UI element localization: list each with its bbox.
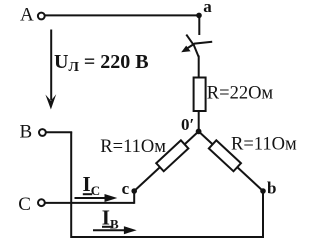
svg-text:R=11Ом: R=11Ом: [100, 137, 166, 157]
node a dot: [196, 13, 202, 19]
terminal A circle: [38, 13, 45, 20]
svg-text:A: A: [20, 5, 34, 26]
wire B right: [46, 131, 72, 133]
resistor R1 body: [194, 78, 206, 112]
wire a down to switch: [198, 15, 200, 35]
wire R1 to node 0': [198, 111, 200, 131]
svg-text:0′: 0′: [181, 115, 194, 134]
wire B down: [70, 132, 72, 238]
terminal B circle: [39, 129, 46, 136]
resistor R3 body (right diagonal): [209, 140, 241, 171]
switch motion arrow: [187, 42, 212, 49]
svg-text:R=11Ом: R=11Ом: [231, 135, 297, 155]
node c dot: [131, 188, 137, 194]
node 0' dot: [196, 129, 202, 135]
bottom wire to b: [71, 236, 265, 238]
switch blade: [186, 35, 198, 57]
svg-text:c: c: [122, 179, 130, 198]
svg-text:a: a: [203, 0, 212, 16]
voltage arrowhead: [45, 94, 56, 109]
wire 0' to node b diagonal: [199, 131, 263, 191]
underline of I_B: [102, 226, 112, 228]
svg-text:C: C: [18, 194, 31, 215]
svg-text:b: b: [267, 178, 276, 197]
wire A to node a: [45, 14, 199, 16]
arrow I_C shaft: [75, 197, 108, 199]
wire switch to resistor R1: [198, 56, 200, 79]
wire C to node c: [45, 202, 134, 204]
terminal C circle: [38, 199, 45, 206]
switch arrow head: [181, 46, 190, 53]
svg-text:UЛ = 220 В: UЛ = 220 В: [54, 51, 149, 75]
wire c down to C line: [133, 191, 135, 204]
underline of I_C: [83, 193, 92, 195]
svg-text:R=22Ом: R=22Ом: [207, 84, 274, 104]
wire 0' to node c diagonal: [134, 131, 198, 191]
arrow I_B head: [124, 226, 137, 234]
arrow I_C head: [105, 194, 118, 202]
resistor R2 body (left diagonal): [156, 140, 188, 171]
arrow I_B shaft: [93, 229, 126, 231]
svg-text:B: B: [20, 121, 33, 142]
wire b down to bottom wire: [262, 191, 264, 238]
node b dot: [260, 188, 266, 194]
voltage arrow U line: [50, 30, 52, 101]
